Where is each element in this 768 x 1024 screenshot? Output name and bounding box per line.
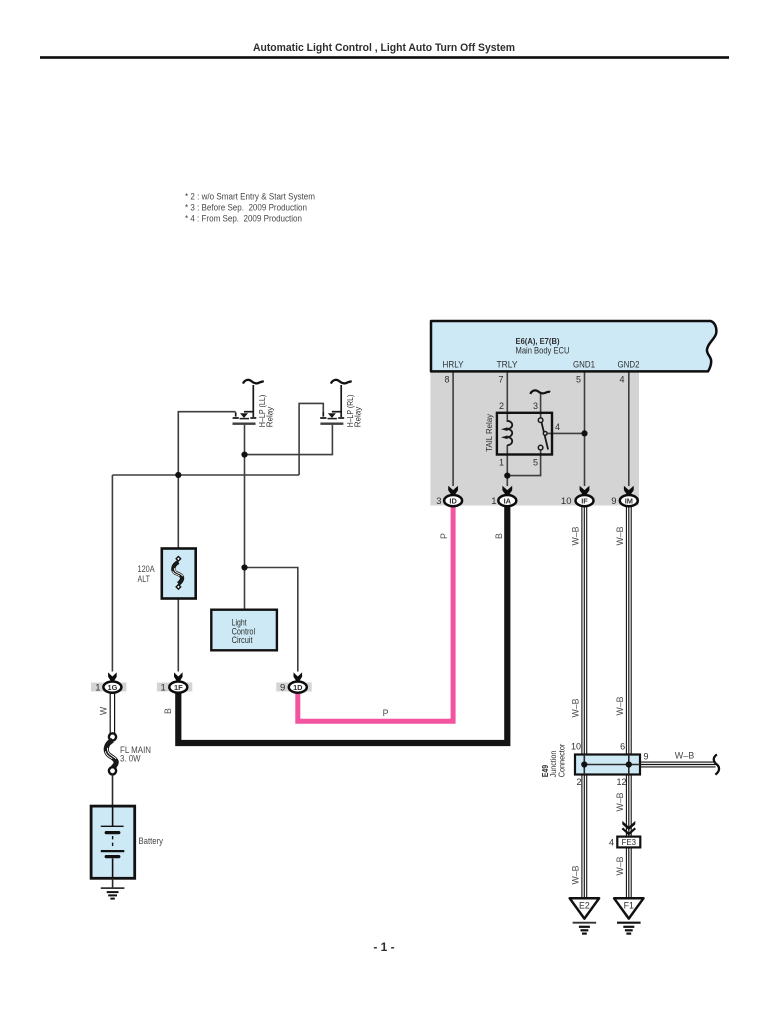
wire: x=112.4 down to connector 1G [111,475,113,672]
arrow into 1G [108,672,117,682]
wire: branch y=567.5 to connector 1D [245,568,298,672]
svg-text:GND2: GND2 [618,360,640,370]
svg-text:B: B [163,708,173,714]
svg-text:IA: IA [504,497,512,506]
wire: ALT fuse bottom to connector 1F [177,599,179,672]
wire: TRLY pin 7 down to relay coil [506,373,508,423]
connector arrows row 1 [448,486,634,496]
connector oval IM [620,495,638,506]
junction dot LCC / 1D branch [241,564,247,570]
fusible link 120A ALT box [162,549,196,599]
wire: x=178.3 bus to ALT fuse top [177,475,179,549]
FE3 box [617,837,640,848]
battery internal symbol [101,806,125,878]
wire: LL gate lead and drop to bus [178,412,235,475]
svg-text:4: 4 [609,838,614,848]
arrow into IF [580,486,590,496]
connector oval ID [444,495,462,506]
junction dot pin4/GND1 [581,430,587,436]
RL break squiggle [331,380,352,384]
W wire from 1G to FL MAIN [110,692,116,734]
svg-text:5: 5 [576,375,581,385]
ALT fuse terminals [176,557,181,562]
svg-text:B: B [494,533,504,539]
tail relay switch contact top [538,418,543,423]
svg-text:3. 0W: 3. 0W [120,754,141,764]
FL MAIN terminal top [109,733,116,740]
connector oval IF [576,495,594,506]
title rule [40,56,729,59]
svg-text:* 4 : From Sep. 2009 Producti: * 4 : From Sep. 2009 Production [185,214,302,224]
svg-text:Automatic Light Control , Ligh: Automatic Light Control , Light Auto Tur… [253,42,515,54]
wire P pink [298,506,453,722]
svg-text:1: 1 [161,683,166,694]
battery box [91,806,135,878]
svg-text:3: 3 [436,496,441,507]
svg-text:2: 2 [499,401,504,411]
junction dot feed bus / ALT drop [175,472,181,478]
arrow into IA [502,486,512,496]
svg-text:* 3 : Before Sep. 2009 Produc: * 3 : Before Sep. 2009 Production [185,203,307,213]
wire: LL source down to LCC top [244,425,246,610]
junction dot LL-RL source tie [241,452,247,458]
wire: RL gate riser from bus [299,403,323,475]
TAIL relay box [497,413,552,455]
wire B black [178,506,507,744]
wire FL MAIN to battery [112,774,114,806]
ground E2 [570,898,599,933]
svg-text:HRLY: HRLY [443,360,464,370]
wire: feed bus y=475 from 1G corner to RL gate corner [112,474,299,476]
wire: coil bottom to IA [506,445,508,486]
svg-text:W–B: W–B [571,526,581,545]
svg-text:TRLY: TRLY [497,360,518,370]
svg-text:W–B: W–B [571,865,581,884]
wire: GND2 pin 4 down to IM [628,373,630,487]
E49 internal link [584,755,640,775]
svg-text:9: 9 [644,752,649,762]
svg-text:W–B: W–B [615,526,625,545]
wire: RL source drop and tie to LL source [245,425,333,455]
wire battery to ground [112,878,114,888]
svg-text:Connector: Connector [556,743,566,777]
svg-text:E6(A), E7(B): E6(A), E7(B) [516,336,560,346]
svg-text:W–B: W–B [615,792,625,811]
arrow into 1D [294,672,303,682]
arrow into ID [448,486,458,496]
svg-text:ALT: ALT [138,574,151,584]
connector arrows row 2 [108,672,302,682]
svg-text:IM: IM [625,497,633,506]
connector tab 1G [91,683,126,692]
arrow into IM [624,486,634,496]
wire: HRLY pin 8 down to ID [452,373,454,487]
svg-text:W: W [99,706,109,715]
tail relay switch blade [542,422,549,449]
svg-text:W–B: W–B [571,698,581,717]
tail relay pin3 break squiggle [530,390,550,394]
E49 junction dot right [626,761,632,767]
svg-text:Relay: Relay [265,406,275,427]
svg-text:1: 1 [499,457,504,467]
svg-text:4: 4 [555,422,560,432]
svg-text:7: 7 [498,375,503,385]
svg-text:Relay: Relay [353,406,363,427]
ground F1 [614,898,643,933]
wire: tail relay pin 3 from break [540,393,542,418]
W-B wire from IF down to E2 [581,506,587,899]
svg-text:12: 12 [616,777,626,787]
FL MAIN element [106,740,116,768]
svg-text:1D: 1D [293,683,303,692]
svg-text:6: 6 [620,742,625,752]
svg-text:1: 1 [95,683,100,694]
svg-text:1: 1 [491,496,496,507]
E49 junction dot left [581,761,587,767]
svg-text:9: 9 [280,683,285,694]
svg-text:Battery: Battery [139,836,164,846]
svg-text:W–B: W–B [615,856,625,875]
connector oval IA [498,495,516,506]
Light Control Circuit box [211,610,277,651]
svg-text:FE3: FE3 [622,838,637,847]
svg-text:8: 8 [444,375,449,385]
svg-text:- 1 -: - 1 - [373,940,394,954]
svg-text:TAIL Relay: TAIL Relay [484,413,494,451]
svg-text:10: 10 [571,742,581,752]
svg-text:E2: E2 [579,900,590,910]
arrow into 1F [174,672,183,682]
svg-text:IF: IF [581,497,588,506]
E49 junction connector box [575,755,640,775]
LL break squiggle [243,380,264,384]
svg-text:1F: 1F [174,683,183,692]
E49 exit break squiggle [714,754,719,774]
junction dot coil/pin5 net [504,473,510,479]
svg-text:W–B: W–B [615,696,625,715]
svg-text:10: 10 [561,496,572,507]
FL MAIN terminal bottom [109,767,116,774]
connector tab 1D [276,683,311,692]
svg-text:Main Body ECU: Main Body ECU [516,346,570,356]
connector oval 1G [103,682,121,693]
W-B wire E49 right exit [640,762,716,768]
transistor H-LP (LL) Relay [233,385,257,424]
tail relay blade pivot [543,432,547,436]
svg-text:1G: 1G [107,683,117,692]
svg-text:F1: F1 [624,900,634,910]
ground below battery [101,888,125,899]
wire: tail relay pin 5 to coil net [507,450,540,476]
tail relay switch contact bottom [538,445,543,450]
svg-text:Circuit: Circuit [232,635,253,645]
svg-text:GND1: GND1 [573,360,595,370]
svg-text:5: 5 [533,457,538,467]
svg-text:3: 3 [533,401,538,411]
connector oval 1D [289,682,307,693]
svg-text:P: P [439,533,449,539]
svg-text:W–B: W–B [675,750,695,760]
ECU internal gray area [430,373,639,506]
wire: GND1 pin 5 down to IF [584,373,586,487]
svg-text:9: 9 [611,496,616,507]
connector pass-through arrow above FE3 [622,821,635,830]
tail relay coil [507,421,512,445]
wire: tail relay pin 4 to GND1 [547,432,585,434]
ECU box E6(A) E7(B) [431,321,716,371]
ALT fuse element [173,562,182,584]
W-B wire from IM down to F1 [626,506,632,899]
svg-text:* 2 : w/o Smart Entry & Start: * 2 : w/o Smart Entry & Start System [185,192,315,202]
svg-text:P: P [383,708,389,718]
svg-text:ID: ID [449,497,457,506]
connector oval 1F [169,682,187,693]
connector tab 1F [157,683,192,692]
transistor H-LP (RL) Relay [320,385,344,424]
svg-text:120A: 120A [138,564,155,574]
svg-text:4: 4 [619,375,624,385]
svg-text:2: 2 [576,777,581,787]
